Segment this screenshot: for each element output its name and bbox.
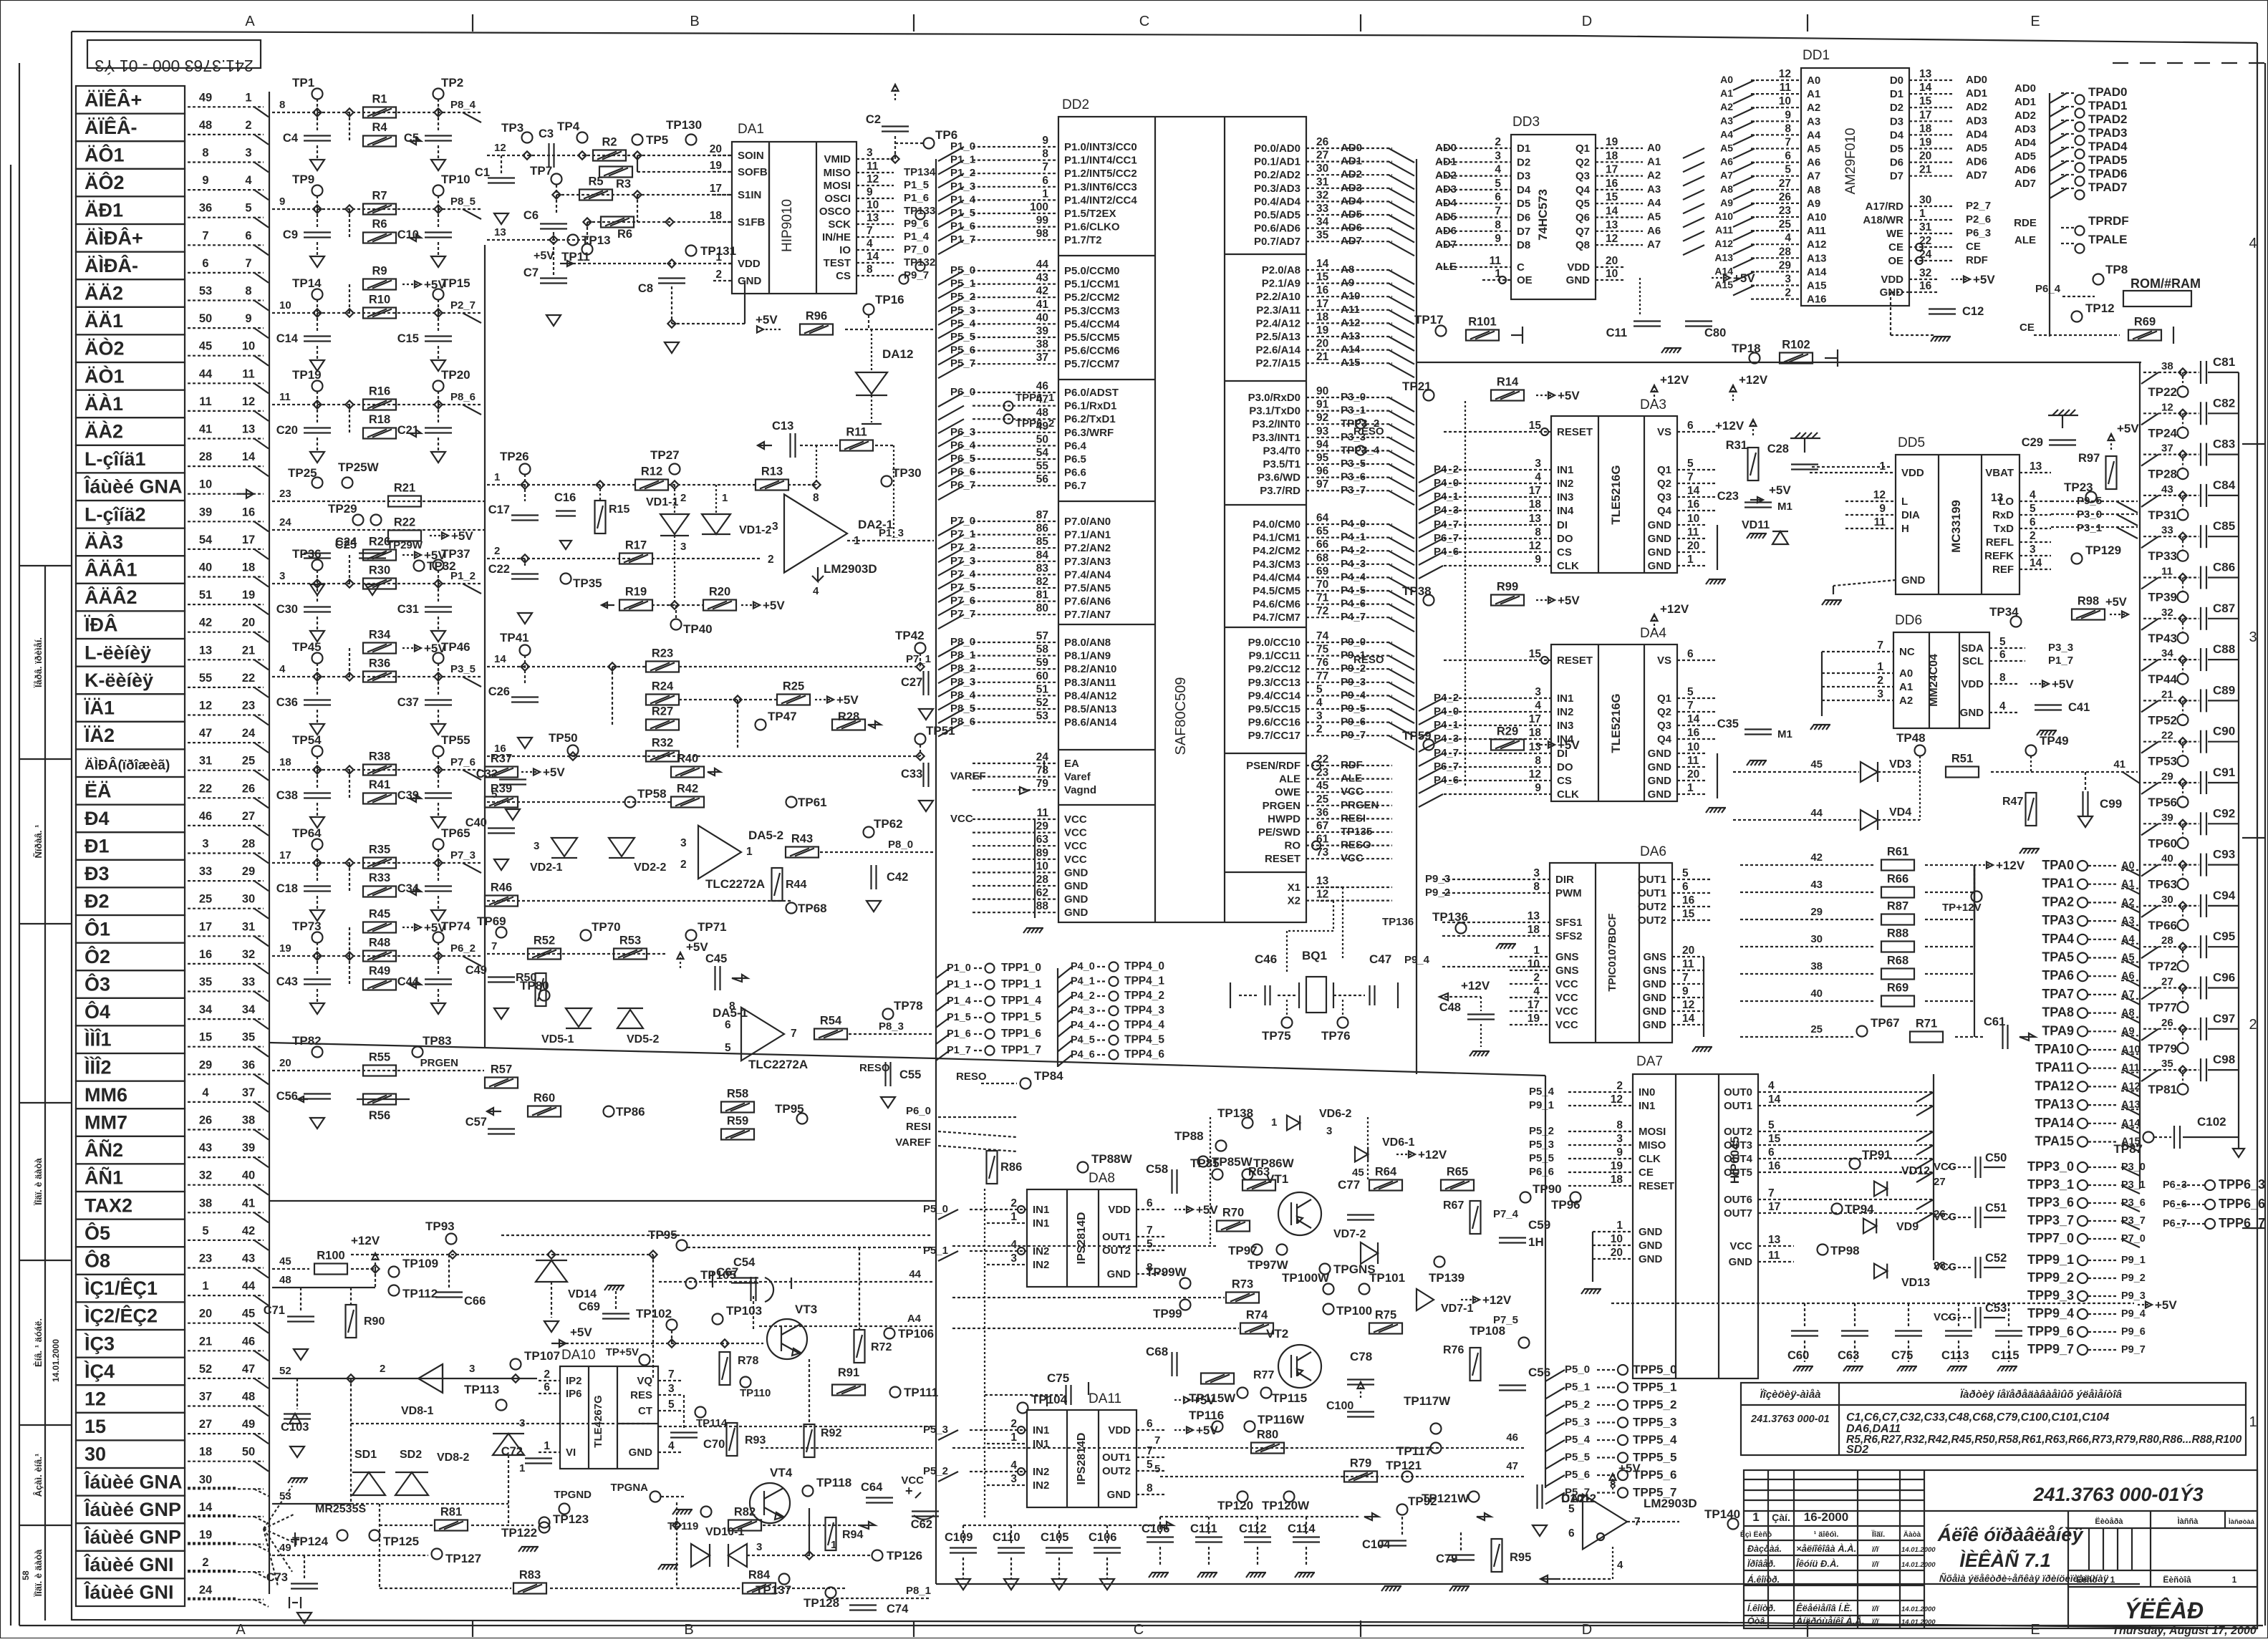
svg-text:P4_4: P4_4 — [1341, 571, 1366, 583]
svg-text:P6.6: P6.6 — [1064, 467, 1086, 479]
svg-text:Q4: Q4 — [1657, 733, 1672, 745]
svg-text:P4_0: P4_0 — [1434, 705, 1459, 718]
svg-text:P8_0: P8_0 — [950, 636, 975, 648]
svg-text:SOFB: SOFB — [738, 166, 768, 178]
svg-text:+5V: +5V — [451, 529, 473, 543]
svg-text:P9_2: P9_2 — [2121, 1272, 2146, 1284]
svg-text:31: 31 — [242, 920, 255, 933]
svg-text:TP48: TP48 — [1896, 731, 1926, 745]
svg-text:VD2-1: VD2-1 — [530, 861, 562, 874]
svg-text:D1: D1 — [1890, 88, 1903, 100]
svg-text:20: 20 — [710, 143, 722, 155]
svg-text:A15: A15 — [1341, 357, 1361, 369]
svg-text:TP134: TP134 — [904, 166, 936, 178]
svg-text:31: 31 — [199, 755, 212, 768]
svg-text:TP121: TP121 — [1386, 1459, 1422, 1472]
svg-text:27: 27 — [1316, 150, 1328, 162]
svg-text:TP91: TP91 — [1862, 1148, 1891, 1162]
svg-text:R44: R44 — [786, 879, 806, 891]
svg-text:P6_3: P6_3 — [950, 426, 975, 438]
svg-text:VDD: VDD — [1901, 467, 1924, 479]
svg-text:CLK: CLK — [1639, 1153, 1661, 1165]
svg-text:36: 36 — [1316, 806, 1329, 818]
svg-text:CLK: CLK — [1557, 560, 1579, 572]
svg-text:TPP6_2: TPP6_2 — [1015, 417, 1054, 430]
svg-text:12: 12 — [85, 1389, 106, 1410]
svg-text:8: 8 — [1535, 755, 1541, 767]
svg-text:C75: C75 — [1891, 1349, 1913, 1362]
svg-text:A1: A1 — [1899, 681, 1913, 693]
svg-text:P1_5: P1_5 — [904, 179, 929, 191]
svg-text:P8.5/AN13: P8.5/AN13 — [1064, 703, 1116, 715]
svg-text:TP35: TP35 — [573, 576, 602, 590]
svg-text:A12: A12 — [1807, 238, 1827, 251]
svg-text:A11: A11 — [1807, 225, 1826, 237]
svg-text:5: 5 — [1316, 683, 1323, 695]
svg-text:4: 4 — [668, 1440, 675, 1452]
svg-text:TPA12: TPA12 — [2035, 1078, 2074, 1093]
svg-text:C39: C39 — [397, 789, 419, 802]
svg-text:241.3763 000-01Ý3: 241.3763 000-01Ý3 — [2032, 1483, 2203, 1505]
svg-text:IN1: IN1 — [1557, 464, 1573, 476]
svg-text:43: 43 — [2161, 483, 2173, 496]
svg-text:4: 4 — [1316, 697, 1323, 709]
svg-text:OSCI: OSCI — [824, 193, 851, 205]
svg-text:P5_0: P5_0 — [1565, 1363, 1590, 1376]
svg-text:MISO: MISO — [824, 167, 851, 179]
svg-text:VCC: VCC — [1555, 978, 1578, 990]
svg-text:5: 5 — [1147, 1459, 1153, 1471]
svg-text:AD1: AD1 — [1341, 155, 1362, 168]
svg-text:TP39: TP39 — [2148, 591, 2177, 604]
svg-text:A14: A14 — [1341, 344, 1361, 356]
svg-text:3: 3 — [519, 1417, 525, 1429]
svg-text:27: 27 — [2161, 976, 2173, 988]
svg-text:VCC: VCC — [950, 813, 973, 825]
svg-text:9: 9 — [202, 174, 208, 187]
svg-text:30: 30 — [199, 1473, 212, 1486]
svg-text:44: 44 — [909, 1268, 921, 1280]
svg-text:R31: R31 — [1726, 439, 1747, 452]
svg-text:R22: R22 — [394, 516, 415, 529]
svg-text:P3_1: P3_1 — [2077, 522, 2102, 534]
svg-text:RESO: RESO — [1353, 654, 1384, 666]
svg-text:16: 16 — [1687, 727, 1700, 739]
svg-text:14: 14 — [199, 1501, 213, 1514]
svg-text:48: 48 — [199, 119, 212, 132]
svg-text:P2_7: P2_7 — [450, 299, 476, 312]
svg-text:45: 45 — [1316, 780, 1329, 792]
svg-text:A9: A9 — [1341, 277, 1354, 289]
svg-text:TP78: TP78 — [894, 999, 923, 1013]
svg-text:D2: D2 — [1517, 156, 1530, 168]
svg-text:C48: C48 — [1439, 1001, 1461, 1014]
svg-text:C5: C5 — [404, 132, 419, 145]
svg-text:R52: R52 — [534, 935, 555, 947]
svg-text:16: 16 — [1687, 498, 1700, 511]
svg-text:67: 67 — [1316, 820, 1328, 832]
svg-text:R83: R83 — [519, 1569, 541, 1582]
svg-text:TPP9_7: TPP9_7 — [2027, 1342, 2074, 1356]
svg-text:68: 68 — [1316, 552, 1329, 564]
svg-text:18: 18 — [1528, 924, 1540, 936]
svg-text:39: 39 — [2161, 811, 2173, 824]
svg-text:TP124: TP124 — [292, 1535, 329, 1548]
svg-text:IN1: IN1 — [1033, 1204, 1049, 1216]
svg-text:12: 12 — [1529, 540, 1541, 552]
svg-text:L-çîíä2: L-çîíä2 — [85, 503, 146, 525]
svg-text:A17/RD: A17/RD — [1866, 201, 1904, 213]
svg-text:GND: GND — [1643, 978, 1667, 990]
svg-text:TPP7_0: TPP7_0 — [2027, 1231, 2074, 1245]
svg-text:TP13: TP13 — [582, 233, 611, 247]
svg-text:C44: C44 — [397, 975, 420, 988]
svg-text:5: 5 — [1785, 164, 1791, 176]
svg-text:Q4: Q4 — [1575, 184, 1591, 196]
svg-text:TPP5_1: TPP5_1 — [1633, 1381, 1676, 1394]
svg-text:C45: C45 — [705, 952, 727, 965]
svg-text:Ð4: Ð4 — [85, 808, 110, 829]
svg-text:MOSI: MOSI — [824, 180, 851, 192]
svg-text:P8.0/AN8: P8.0/AN8 — [1064, 637, 1111, 649]
svg-text:ÄÀ2: ÄÀ2 — [85, 420, 123, 443]
svg-text:P1.5/T2EX: P1.5/T2EX — [1064, 208, 1116, 220]
svg-text:D3: D3 — [1517, 170, 1530, 183]
svg-text:TP22: TP22 — [2148, 385, 2177, 399]
svg-text:ALE: ALE — [1279, 773, 1301, 786]
svg-text:TP1: TP1 — [292, 76, 314, 90]
svg-text:A1: A1 — [1647, 155, 1661, 168]
svg-text:14: 14 — [494, 653, 506, 665]
svg-text:28: 28 — [242, 838, 255, 851]
svg-text:C98: C98 — [2213, 1053, 2235, 1066]
svg-text:TP25: TP25 — [288, 466, 317, 480]
svg-text:TP80: TP80 — [520, 979, 549, 993]
svg-text:DO: DO — [1557, 533, 1573, 545]
svg-text:69: 69 — [1316, 565, 1329, 577]
svg-text:P9_7: P9_7 — [2121, 1344, 2146, 1356]
svg-text:32: 32 — [2161, 607, 2173, 619]
svg-text:ÄÌÐÂ(ïðîæèã): ÄÌÐÂ(ïðîæèã) — [85, 758, 170, 773]
svg-text:9: 9 — [1785, 109, 1791, 121]
svg-text:44: 44 — [1036, 259, 1049, 271]
svg-text:Çàí.: Çàí. — [1772, 1512, 1790, 1523]
svg-text:3: 3 — [1316, 710, 1323, 723]
svg-text:IN2: IN2 — [1033, 1259, 1049, 1271]
svg-text:6: 6 — [725, 1019, 731, 1031]
svg-text:P1_5: P1_5 — [950, 207, 975, 219]
svg-text:P7_4: P7_4 — [1493, 1208, 1519, 1220]
svg-text:18: 18 — [1529, 498, 1542, 511]
svg-text:7: 7 — [1785, 137, 1791, 149]
svg-text:28: 28 — [199, 450, 212, 463]
svg-text:+5V: +5V — [1733, 271, 1755, 285]
svg-text:17: 17 — [1528, 999, 1540, 1011]
svg-text:+5V: +5V — [1196, 1203, 1218, 1217]
svg-text:47: 47 — [1506, 1460, 1518, 1472]
svg-text:TP+5V: TP+5V — [606, 1346, 639, 1358]
svg-text:R51: R51 — [1951, 753, 1973, 766]
svg-text:76: 76 — [1316, 657, 1329, 669]
svg-text:SD1: SD1 — [354, 1449, 377, 1461]
svg-text:P8_5: P8_5 — [450, 195, 476, 208]
svg-text:TP117: TP117 — [1396, 1444, 1432, 1458]
svg-text:RxD: RxD — [1992, 509, 2014, 521]
svg-text:R4: R4 — [372, 121, 387, 134]
svg-text:P3_7: P3_7 — [1341, 484, 1366, 496]
svg-text:P4.4/CM4: P4.4/CM4 — [1253, 571, 1301, 584]
svg-text:GND: GND — [1639, 1240, 1663, 1252]
svg-text:P9.3/CC13: P9.3/CC13 — [1248, 677, 1301, 689]
svg-text:REF: REF — [1992, 564, 2014, 576]
svg-text:+5V: +5V — [763, 599, 785, 612]
svg-text:52: 52 — [279, 1365, 291, 1377]
svg-text:OUT0: OUT0 — [1724, 1086, 1752, 1098]
svg-text:DA6: DA6 — [1640, 844, 1666, 859]
svg-text:39: 39 — [1036, 325, 1049, 337]
svg-text:P8_1: P8_1 — [906, 1585, 931, 1597]
svg-text:C37: C37 — [397, 696, 419, 709]
svg-text:R91: R91 — [838, 1366, 859, 1379]
svg-text:TP92: TP92 — [1408, 1494, 1437, 1508]
svg-text:P1_7: P1_7 — [947, 1045, 971, 1056]
svg-text:C96: C96 — [2213, 971, 2235, 985]
svg-text:OUT2: OUT2 — [1102, 1245, 1131, 1257]
svg-text:57: 57 — [1036, 630, 1048, 642]
svg-text:E: E — [2030, 1622, 2040, 1638]
svg-text:TP95: TP95 — [648, 1228, 677, 1242]
svg-text:OUT2: OUT2 — [1638, 901, 1666, 913]
svg-text:3: 3 — [1877, 688, 1883, 700]
svg-text:VCC: VCC — [1555, 1019, 1578, 1031]
svg-text:C42: C42 — [887, 871, 908, 884]
svg-text:A2: A2 — [1647, 170, 1661, 182]
svg-text:26: 26 — [2161, 1017, 2173, 1029]
svg-text:P4_2: P4_2 — [1071, 990, 1095, 1002]
svg-text:12: 12 — [1682, 999, 1694, 1011]
svg-text:P7_0: P7_0 — [904, 243, 929, 256]
svg-text:K-ëèíèÿ: K-ëèíèÿ — [85, 670, 153, 691]
svg-text:A5: A5 — [1720, 143, 1733, 154]
svg-text:ÌÌÎ2: ÌÌÎ2 — [84, 1056, 112, 1078]
svg-text:P8.4/AN12: P8.4/AN12 — [1064, 690, 1116, 702]
svg-text:72: 72 — [1316, 605, 1328, 617]
svg-text:VCC: VCC — [1341, 786, 1364, 798]
svg-text:VD2-2: VD2-2 — [634, 861, 666, 874]
svg-text:75: 75 — [1316, 644, 1329, 656]
svg-text:VDD: VDD — [1108, 1424, 1131, 1436]
svg-text:R11: R11 — [846, 426, 867, 439]
svg-text:C47: C47 — [1369, 952, 1391, 966]
svg-text:1: 1 — [722, 492, 728, 504]
svg-text:94: 94 — [1316, 438, 1329, 450]
svg-text:C10: C10 — [397, 228, 419, 241]
svg-text:P8_4: P8_4 — [450, 99, 476, 111]
svg-text:ÌÇ1/ÊÇ1: ÌÇ1/ÊÇ1 — [84, 1277, 158, 1299]
svg-text:20: 20 — [1606, 255, 1618, 267]
svg-text:CT: CT — [638, 1405, 652, 1417]
svg-text:GND: GND — [1648, 533, 1672, 545]
svg-text:VD11: VD11 — [1742, 519, 1770, 531]
svg-text:VDD: VDD — [1881, 274, 1903, 286]
svg-text:R80: R80 — [1257, 1429, 1278, 1441]
svg-text:44: 44 — [199, 367, 213, 380]
svg-text:A10: A10 — [1807, 211, 1827, 223]
svg-text:D7: D7 — [1890, 170, 1903, 183]
svg-text:RESET: RESET — [1639, 1180, 1674, 1192]
svg-text:P7.7/AN7: P7.7/AN7 — [1064, 609, 1111, 621]
svg-text:P5_5: P5_5 — [950, 331, 975, 343]
svg-text:R19: R19 — [625, 586, 647, 599]
svg-text:R95: R95 — [1510, 1551, 1531, 1564]
svg-text:Ïîäï. è äàòà: Ïîäï. è äàòà — [33, 1549, 44, 1598]
svg-text:TPGNA: TPGNA — [611, 1482, 649, 1494]
svg-text:P7.4/AN4: P7.4/AN4 — [1064, 569, 1111, 581]
svg-text:P7.6/AN6: P7.6/AN6 — [1064, 596, 1111, 608]
svg-text:58: 58 — [1036, 644, 1049, 656]
svg-text:R82: R82 — [734, 1506, 756, 1519]
svg-text:R40: R40 — [677, 753, 698, 766]
svg-text:TP54: TP54 — [292, 733, 322, 747]
svg-text:P4_0: P4_0 — [1071, 961, 1095, 972]
svg-text:6: 6 — [1495, 191, 1501, 203]
svg-text:E: E — [2030, 14, 2040, 29]
svg-text:Q3: Q3 — [1575, 170, 1590, 183]
svg-text:Ô5: Ô5 — [85, 1222, 110, 1244]
svg-text:C3: C3 — [539, 127, 554, 140]
svg-text:ÌÌÎ1: ÌÌÎ1 — [84, 1028, 112, 1051]
svg-text:3: 3 — [534, 840, 539, 852]
svg-text:TPA14: TPA14 — [2035, 1116, 2074, 1130]
svg-text:19: 19 — [1316, 324, 1329, 337]
svg-text:TP11: TP11 — [561, 250, 590, 264]
svg-text:IN3: IN3 — [1557, 720, 1573, 732]
svg-text:C111: C111 — [1190, 1522, 1217, 1535]
svg-text:TPP1_4: TPP1_4 — [1001, 995, 1041, 1007]
svg-text:2: 2 — [768, 554, 774, 566]
svg-text:C2: C2 — [866, 113, 881, 126]
svg-text:RESO: RESO — [1341, 839, 1371, 851]
svg-text:11: 11 — [2161, 566, 2173, 578]
svg-text:TP63: TP63 — [2148, 878, 2177, 892]
svg-text:P7_7: P7_7 — [950, 608, 975, 620]
svg-text:TP55: TP55 — [441, 733, 471, 747]
svg-text:TP110: TP110 — [740, 1387, 771, 1399]
svg-text:P0.0/AD0: P0.0/AD0 — [1254, 143, 1301, 155]
svg-text:ËÄ: ËÄ — [85, 780, 112, 801]
svg-text:TPP5_4: TPP5_4 — [1633, 1433, 1677, 1447]
svg-text:AD5: AD5 — [1435, 211, 1457, 223]
svg-text:GND: GND — [1648, 546, 1672, 559]
svg-text:51: 51 — [199, 589, 212, 602]
svg-text:18: 18 — [1919, 122, 1932, 135]
svg-text:+5V: +5V — [756, 313, 778, 327]
svg-text:P5.7/CCM7: P5.7/CCM7 — [1064, 358, 1120, 370]
svg-text:A11: A11 — [1341, 304, 1360, 316]
svg-text:BQ1: BQ1 — [1302, 949, 1327, 962]
svg-text:9: 9 — [1879, 503, 1886, 515]
svg-text:A3: A3 — [1720, 115, 1733, 126]
svg-text:8: 8 — [202, 147, 208, 160]
svg-text:5: 5 — [668, 1399, 675, 1411]
svg-text:Q8: Q8 — [1575, 239, 1590, 251]
svg-text:84: 84 — [1036, 549, 1049, 561]
svg-text:4: 4 — [1010, 1239, 1017, 1251]
svg-text:TPA2: TPA2 — [2042, 894, 2074, 909]
svg-text:12: 12 — [1779, 68, 1791, 80]
svg-text:P1_6: P1_6 — [950, 221, 975, 233]
svg-text:TPP5_3: TPP5_3 — [1633, 1416, 1676, 1429]
svg-text:10: 10 — [1687, 513, 1699, 525]
svg-text:C55: C55 — [899, 1068, 921, 1081]
svg-text:2: 2 — [1316, 723, 1323, 735]
svg-text:P2.1/A9: P2.1/A9 — [1262, 278, 1301, 290]
svg-text:21: 21 — [1919, 164, 1932, 176]
svg-text:16-2000: 16-2000 — [1804, 1510, 1848, 1524]
svg-text:Q5: Q5 — [1575, 198, 1590, 210]
svg-text:VS: VS — [1657, 655, 1671, 667]
svg-text:9: 9 — [1495, 233, 1501, 245]
svg-text:D5: D5 — [1890, 143, 1903, 155]
svg-text:TP82: TP82 — [292, 1034, 322, 1048]
svg-text:AD4: AD4 — [1341, 195, 1363, 207]
svg-text:P4_0: P4_0 — [1434, 477, 1459, 489]
svg-text:C87: C87 — [2213, 602, 2235, 615]
svg-text:59: 59 — [1036, 657, 1049, 669]
svg-text:R30: R30 — [369, 564, 390, 577]
svg-text:R55: R55 — [369, 1051, 390, 1064]
svg-text:6: 6 — [202, 257, 208, 270]
svg-text:TPP4_2: TPP4_2 — [1124, 990, 1164, 1002]
svg-text:C9: C9 — [283, 228, 298, 241]
svg-text:41: 41 — [2113, 758, 2125, 771]
svg-text:TP135: TP135 — [1341, 826, 1372, 838]
svg-text:TPP3_1: TPP3_1 — [2027, 1177, 2074, 1192]
svg-text:10: 10 — [1606, 268, 1618, 280]
svg-text:TP23: TP23 — [2064, 480, 2093, 494]
svg-text:P6_6: P6_6 — [1529, 1166, 1554, 1178]
svg-text:AD6: AD6 — [2014, 164, 2036, 176]
svg-text:TP117W: TP117W — [1404, 1394, 1451, 1408]
svg-text:1: 1 — [746, 846, 753, 858]
svg-text:P1.7/T2: P1.7/T2 — [1064, 234, 1102, 246]
svg-text:45: 45 — [1810, 758, 1823, 771]
svg-text:Á.êîíòð.: Á.êîíòð. — [1747, 1574, 1780, 1585]
svg-text:13: 13 — [867, 212, 879, 224]
svg-text:A2: A2 — [1720, 101, 1733, 112]
svg-text:26: 26 — [1316, 136, 1329, 148]
svg-text:7: 7 — [1042, 161, 1048, 173]
svg-text:42: 42 — [1810, 851, 1823, 864]
svg-text:9: 9 — [245, 312, 251, 325]
svg-text:R65: R65 — [1447, 1166, 1468, 1179]
svg-text:×åëíîêîâà À.À.: ×åëíîêîâà À.À. — [1796, 1543, 1856, 1554]
svg-text:11: 11 — [1490, 255, 1502, 267]
svg-text:TPAD5: TPAD5 — [2088, 153, 2127, 167]
svg-text:2: 2 — [380, 1363, 385, 1375]
svg-text:VDD: VDD — [1108, 1204, 1131, 1216]
svg-text:C83: C83 — [2213, 438, 2235, 451]
svg-text:2: 2 — [494, 545, 500, 557]
svg-text:P6_0: P6_0 — [906, 1105, 931, 1117]
svg-text:C56: C56 — [276, 1090, 298, 1103]
svg-text:P0.1/AD1: P0.1/AD1 — [1254, 156, 1301, 168]
svg-text:C22: C22 — [488, 563, 510, 576]
svg-text:A0: A0 — [1647, 142, 1661, 154]
svg-text:18: 18 — [242, 561, 255, 574]
svg-text:TP116: TP116 — [1189, 1409, 1224, 1422]
svg-text:A: A — [236, 1622, 246, 1638]
